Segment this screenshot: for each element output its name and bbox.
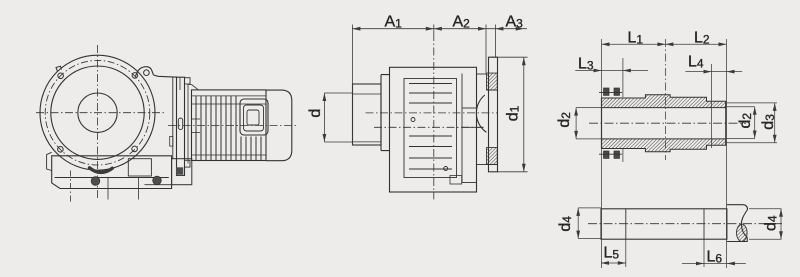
d4 right extension top — [749, 208, 782, 210]
base inner horizontal line — [55, 177, 169, 179]
output boss lower line — [462, 126, 484, 128]
small hole upper — [411, 118, 415, 122]
arrow L2 right — [719, 42, 727, 46]
svg-text:d3: d3 — [760, 114, 777, 130]
arrow L6 left (outside) — [696, 262, 704, 266]
motor support foot — [172, 159, 192, 185]
upper axis centerline — [366, 112, 498, 114]
plate-flange connector bottom — [477, 164, 487, 166]
svg-text:L2: L2 — [694, 29, 710, 46]
motor body — [192, 90, 267, 161]
shaft axis centerline — [589, 122, 746, 124]
base mounting hole right (filled) — [153, 176, 162, 185]
label d — [307, 109, 324, 118]
svg-text:A3: A3 — [506, 14, 524, 31]
dimension d1 extension bottom — [498, 171, 528, 173]
dimension d1 extension top — [490, 56, 528, 58]
snap ring squares top — [604, 88, 620, 95]
arrow A1 right — [426, 27, 434, 31]
arrow A2 right — [478, 27, 486, 31]
arrow A2 left — [434, 27, 442, 31]
shaft end face right — [725, 101, 727, 145]
d3 extension bottom — [726, 142, 777, 144]
label L1 — [628, 29, 644, 46]
svg-text:L1: L1 — [628, 29, 644, 46]
d4 right dimension line — [780, 209, 782, 239]
vertical centerline — [433, 33, 435, 199]
hollow shaft bottom wall (hatched) — [602, 139, 726, 152]
dimension line L5 — [601, 262, 626, 264]
lower axis centerline — [374, 126, 484, 128]
arrow d4 left top — [576, 208, 580, 216]
extension line L3 bottom tick — [622, 148, 624, 162]
label d1 — [504, 105, 521, 121]
extension line A2 right — [485, 25, 487, 74]
extension line A1/A2 — [433, 25, 435, 34]
shaft axis centerline — [588, 223, 782, 225]
horizontal centerline — [36, 112, 165, 114]
arrow d2 right top — [753, 107, 757, 115]
support foot dark square — [176, 167, 183, 174]
svg-text:d4: d4 — [557, 216, 574, 232]
label A2 — [453, 14, 471, 31]
long extension line right — [726, 39, 728, 268]
motor end cap — [266, 90, 292, 161]
shaft shoulder line 2 — [703, 209, 705, 239]
hub collar — [381, 75, 390, 151]
L5 extension right — [625, 239, 627, 267]
shaft end collar with break — [727, 205, 748, 242]
d4 left dimension line — [577, 208, 579, 239]
housing inner step bottom — [462, 182, 477, 184]
bolt hole top-left — [58, 73, 64, 79]
arrow L4 right (outside) — [727, 70, 735, 74]
dimension line L4 — [685, 71, 742, 73]
d3 dimension line — [774, 103, 776, 143]
d2 left extension bottom — [576, 138, 601, 140]
label d2 left — [556, 112, 573, 128]
arrow d2 left bottom — [574, 131, 578, 139]
arrow A1 left — [352, 27, 360, 31]
housing top edge to motor flange — [154, 75, 178, 77]
plate-flange connector top — [477, 73, 487, 75]
svg-text:d2: d2 — [556, 112, 573, 128]
arrow d3 top — [773, 103, 777, 111]
top-right lug with hole — [136, 67, 154, 77]
arrow A3 left — [495, 27, 503, 31]
arrow d4 left bottom — [576, 231, 580, 239]
small hole lower — [444, 167, 448, 171]
d3 extension top — [726, 102, 777, 104]
base step line right — [145, 184, 172, 186]
svg-text:L3: L3 — [578, 55, 594, 72]
base hole centerline left — [70, 171, 72, 203]
arrow d4 right top — [779, 209, 783, 217]
d2 left dimension line — [575, 108, 577, 139]
hub bore lines — [353, 94, 382, 142]
snap ring line top — [599, 92, 622, 94]
label L6 — [707, 249, 723, 266]
dimension line L3 — [575, 70, 648, 72]
label L5 — [604, 244, 620, 261]
flange bolt bottom — [185, 160, 191, 167]
label L3 — [578, 55, 594, 72]
bolt hole top-right — [132, 73, 138, 79]
motor flange plate — [177, 77, 185, 175]
extension line L3 right — [622, 58, 624, 97]
dimension line L1 L2 — [602, 43, 727, 45]
label d3 — [760, 114, 777, 130]
arrow A3 right — [516, 27, 524, 31]
extension line L4 left — [711, 64, 713, 148]
hollow shaft top wall (hatched) — [602, 95, 726, 108]
base hole centerline right — [137, 178, 139, 200]
broken section hatched ellipse — [737, 224, 748, 241]
junction box middle — [244, 105, 264, 131]
arrow L1 right — [657, 42, 665, 46]
housing notch — [170, 136, 173, 146]
arrow L2 left — [665, 42, 673, 46]
extension centerline middle (dash-dot) — [664, 39, 666, 160]
svg-text:d4: d4 — [763, 215, 780, 231]
label d4 left — [557, 216, 574, 232]
gear housing inner rect — [404, 79, 457, 178]
arrow L6 right (outside) — [727, 262, 735, 266]
gear housing outer rect — [390, 67, 477, 192]
dimension d1 line — [523, 57, 525, 172]
flange plate inner line — [179, 77, 181, 90]
svg-text:d1: d1 — [504, 105, 521, 121]
long extension line left — [601, 39, 603, 268]
arrow L3 left (outside) — [594, 69, 602, 73]
shaft shoulder line 1 — [625, 209, 627, 239]
label d4 right — [763, 215, 780, 231]
housing right edge — [172, 77, 174, 159]
bolt hole bottom-left — [58, 147, 64, 153]
svg-text:d: d — [307, 109, 324, 118]
flange spigot circle — [51, 66, 144, 159]
plate slot detail — [178, 118, 182, 129]
label A1 — [385, 14, 403, 31]
shaft end face left — [601, 98, 603, 149]
dimension line L6 — [682, 263, 746, 265]
label d2 right — [737, 113, 754, 129]
d4 left extension top — [578, 207, 601, 209]
motor body top profile lines — [192, 96, 267, 104]
L6 extension left — [703, 239, 705, 267]
flange hub hatched upper — [487, 73, 498, 90]
extension line left (A1) — [351, 25, 353, 144]
arrow L1 left — [602, 42, 610, 46]
svg-text:A2: A2 — [453, 14, 471, 31]
motor body bottom profile line — [192, 154, 267, 156]
d2 right extension bottom — [726, 138, 755, 140]
junction box inner — [247, 110, 259, 125]
arrow L5 left — [601, 261, 609, 265]
dimension d extension bottom — [324, 141, 353, 143]
flange bolt top — [185, 78, 191, 84]
base housing outline — [52, 156, 172, 189]
d2 right dimension line — [754, 107, 756, 139]
housing fin lines — [409, 84, 452, 170]
svg-text:A1: A1 — [385, 14, 403, 31]
svg-text:L5: L5 — [604, 244, 620, 261]
shaft boss semicircle — [476, 95, 486, 132]
motor axis centerline — [168, 124, 297, 126]
svg-text:L4: L4 — [688, 53, 704, 70]
svg-text:L6: L6 — [707, 249, 723, 266]
bolt hole bottom-right — [132, 146, 138, 152]
label L2 — [694, 29, 710, 46]
arrow d2 right bottom — [753, 131, 757, 139]
arrow L4 left (outside) — [704, 70, 712, 74]
bolt circle (dash-dot) — [45, 60, 150, 165]
dimension d line — [323, 93, 325, 142]
housing inner step vertical — [461, 74, 463, 183]
motor adapter lines — [187, 85, 189, 164]
vertical centerline — [97, 45, 99, 200]
d2 right extension top — [726, 106, 755, 108]
adapter ring lines — [192, 119, 201, 133]
snap ring line bottom — [599, 153, 622, 155]
arrow d bottom — [323, 134, 327, 142]
d4 right extension bottom — [749, 238, 782, 240]
base mounting hole left (filled) — [91, 177, 100, 186]
extension line A3 left — [494, 25, 496, 58]
arrow d2 left top — [574, 108, 578, 116]
arrow d top — [323, 93, 327, 101]
junction box outer — [240, 99, 268, 135]
housing corner pad — [450, 176, 462, 185]
oil drain dark boss — [90, 168, 113, 173]
base hole centerline mid — [107, 178, 109, 200]
dimension line A1 A2 A3 — [352, 28, 527, 30]
arrow L3 right (outside) — [623, 69, 631, 73]
shaft bore circle — [78, 93, 117, 132]
arrow d1 bottom — [522, 164, 526, 172]
label A3 — [506, 14, 524, 31]
motor cooling fins — [196, 96, 261, 160]
snap ring squares bottom — [604, 151, 620, 158]
arrow d3 bottom — [773, 135, 777, 143]
base inner rectangle — [128, 159, 151, 176]
label L4 — [688, 53, 704, 70]
top-left lug nub — [56, 66, 62, 71]
base left tab — [47, 152, 52, 170]
d2 left extension top — [576, 107, 601, 109]
solid shaft body — [601, 209, 727, 239]
flange hub hatched lower — [487, 148, 498, 165]
arrow d4 right bottom — [779, 231, 783, 239]
flange outer circle — [40, 55, 155, 170]
dimension d extension top — [324, 92, 353, 94]
motor front bell chamfer — [188, 85, 199, 90]
output boss top line — [462, 107, 477, 109]
hollow shaft hub — [353, 84, 382, 145]
svg-text:d2: d2 — [737, 113, 754, 129]
d4 left extension bottom — [578, 238, 601, 240]
arrow d1 top — [522, 57, 526, 65]
output flange disc — [489, 57, 498, 172]
arrow L5 right — [618, 261, 626, 265]
